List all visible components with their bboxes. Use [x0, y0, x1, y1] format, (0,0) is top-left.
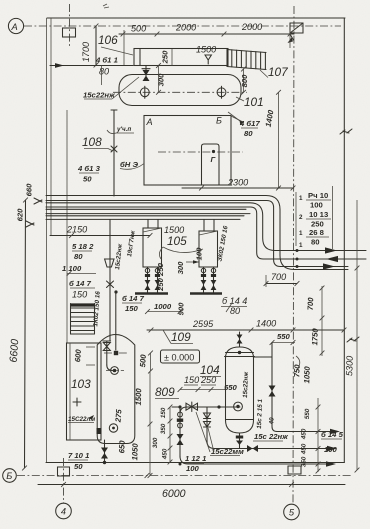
scan noise texture [0, 0, 1, 1]
platform 106 rectangle [134, 49, 228, 66]
pump2 suction stubs from band [203, 220, 205, 232]
dimension 2300 [182, 187, 293, 189]
tank inlet dot [114, 351, 118, 355]
svg-text:1: 1 [299, 230, 303, 237]
svg-text:275: 275 [113, 408, 123, 423]
svg-text:103: 103 [71, 377, 91, 391]
pipe 2b [46, 207, 366, 259]
tank top valve [106, 341, 108, 365]
dimension 800 vertical [243, 69, 245, 92]
pipe band: pipe 1a [46, 196, 348, 270]
twin valve on feed pipe [186, 403, 192, 410]
svg-text:у'ч.п: у'ч.п [116, 126, 131, 133]
svg-text:б 14 5: б 14 5 [321, 430, 344, 439]
svg-text:1 100: 1 100 [62, 264, 82, 273]
drop leg left x180 [179, 407, 181, 457]
svg-text:450: 450 [300, 443, 307, 455]
tank bottom valve [104, 440, 106, 462]
svg-text:4: 4 [61, 507, 66, 517]
svg-text:150: 150 [160, 407, 167, 418]
svg-text:2: 2 [299, 214, 303, 221]
svg-text:15с22нж: 15с22нж [242, 371, 250, 398]
wall top [47, 17, 345, 19]
svg-text:1000: 1000 [154, 302, 172, 311]
grid axis B line [17, 475, 352, 477]
svg-text:108: 108 [82, 135, 102, 149]
svg-text:1050: 1050 [130, 442, 140, 460]
svg-text:250: 250 [200, 375, 216, 385]
svg-text:2000: 2000 [241, 22, 262, 32]
elbow from x207 to mid pipe [207, 441, 246, 449]
svg-text:105: 105 [167, 234, 187, 248]
809 feed pipe horizontal [172, 407, 240, 414]
pipe 3a [46, 208, 246, 210]
leader from B corner up right [231, 116, 243, 122]
svg-text:2150: 2150 [66, 225, 87, 235]
svg-text:900: 900 [177, 302, 186, 316]
svg-text:100: 100 [310, 201, 323, 210]
vessel 101 [119, 75, 241, 106]
arrow right on exit 266 [323, 263, 335, 269]
svg-text:5: 5 [289, 508, 295, 518]
svg-text:1500: 1500 [196, 45, 216, 55]
svg-text:2595: 2595 [192, 319, 214, 329]
header under pump2 [190, 292, 222, 295]
room A-B rectangle [144, 116, 231, 186]
svg-text:100: 100 [186, 464, 200, 473]
svg-text:15с 2 15 1: 15с 2 15 1 [256, 398, 264, 428]
svg-text:150: 150 [184, 375, 199, 385]
vessel 104 [225, 332, 255, 433]
svg-text:106: 106 [98, 33, 118, 47]
svg-text:1: 1 [299, 195, 303, 202]
pump1 suction stubs from band [147, 220, 149, 229]
dimension 1700 vertical [95, 26, 97, 65]
break symbol right wall top [340, 129, 352, 134]
svg-text:300: 300 [152, 437, 159, 448]
extension line under 80 [101, 66, 103, 86]
svg-text:80: 80 [244, 129, 253, 138]
svg-text:50: 50 [83, 175, 92, 184]
pipe 1b [46, 201, 348, 267]
grid circle 5 [284, 504, 300, 520]
svg-text:1 12 1: 1 12 1 [185, 454, 206, 463]
svg-text:Б: Б [216, 116, 222, 126]
svg-text:15с22мм: 15с22мм [211, 447, 244, 456]
stray mark top [103, 4, 109, 8]
svg-text:250: 250 [161, 50, 170, 65]
right margin rot dims 550 450 450 350 [317, 398, 319, 472]
grid axis A line [24, 25, 341, 27]
grid axis 4 line top [69, 4, 71, 46]
vertical pipe x114 [113, 110, 115, 196]
svg-text:700: 700 [271, 272, 286, 282]
svg-text:26 8: 26 8 [309, 228, 325, 237]
svg-text:1750: 1750 [310, 327, 320, 345]
pump 1 (105) [143, 228, 162, 267]
svg-text:4 б1 3: 4 б1 3 [77, 164, 101, 173]
svg-text:б 14 4: б 14 4 [222, 296, 247, 306]
grid circle A [8, 18, 23, 33]
pipe 3b [46, 213, 250, 215]
tank bottom fitting [97, 428, 102, 434]
svg-text:1: 1 [299, 242, 303, 249]
funnel symbol [105, 259, 114, 267]
wall left outer [46, 18, 48, 463]
grid axis 4 line bottom [63, 458, 65, 503]
wall pilaster line right [332, 186, 334, 249]
pump2 suction riser [201, 267, 217, 293]
svg-text:660: 660 [25, 183, 34, 197]
closet G inside room [202, 144, 220, 185]
svg-text:107: 107 [268, 65, 288, 79]
svg-text:Б: Б [6, 471, 12, 481]
arrow right on exit 250 [325, 247, 337, 253]
svg-text:800: 800 [240, 74, 249, 88]
svg-text:150: 150 [72, 290, 87, 300]
svg-text:150: 150 [125, 304, 139, 313]
stray curl mark [296, 356, 300, 370]
break symbol right wall mid [347, 337, 359, 342]
svg-text:350: 350 [300, 456, 307, 467]
dimension 700 under bend [266, 283, 297, 285]
corner arrow at dim end [291, 35, 294, 40]
svg-text:101: 101 [244, 95, 264, 109]
svg-text:2000: 2000 [175, 23, 196, 33]
svg-text:550: 550 [277, 332, 291, 341]
left dimension line 6600 [25, 200, 26, 468]
pump 2 (105) [199, 231, 218, 267]
wall left inner [50, 18, 52, 235]
pipe 2a [46, 203, 366, 251]
valve on pipe to vessel 101 [145, 66, 147, 81]
svg-text:500: 500 [131, 24, 146, 34]
room centerline [158, 151, 243, 153]
svg-text:600: 600 [73, 348, 83, 362]
svg-text:A: A [146, 117, 153, 127]
wall right [343, 18, 345, 463]
second drop pipe to tank inlet [114, 290, 117, 293]
svg-text:2300: 2300 [227, 178, 248, 188]
column marker top-right [290, 23, 303, 33]
dimension 300 vertical [158, 66, 160, 93]
riser bottom pipe to right (y429) [277, 431, 338, 433]
x-valve [107, 281, 114, 288]
dimension 250 inside 106 [171, 49, 173, 66]
svg-text:80: 80 [74, 252, 83, 261]
svg-text:7 10 1: 7 10 1 [68, 451, 89, 460]
svg-text:809: 809 [155, 385, 175, 399]
grid axis 5 line [293, 6, 294, 503]
svg-text:80: 80 [230, 306, 240, 316]
manhole circle left [140, 88, 149, 97]
column marker bottom-right [288, 466, 301, 474]
dim line 2595 / 1400 [147, 329, 344, 331]
mid bottom pipe with valve to right [240, 448, 333, 450]
svg-text:500: 500 [138, 354, 148, 368]
svg-text:6600: 6600 [8, 339, 22, 363]
svg-text:5 18 2: 5 18 2 [72, 242, 94, 251]
svg-text:1500: 1500 [134, 387, 144, 405]
svg-text:109: 109 [171, 330, 191, 344]
top fitting [239, 332, 241, 347]
grid circle B [3, 469, 17, 483]
tank port circle upper [111, 367, 119, 375]
tank 102 vertical vessel [97, 335, 135, 444]
bottom dimension line 6000 [38, 484, 345, 486]
grid circle 4 [56, 503, 72, 519]
svg-text:10 13: 10 13 [309, 210, 328, 219]
arrow left on exit 259 [326, 256, 338, 262]
center port [234, 402, 243, 411]
svg-text:100: 100 [324, 445, 338, 454]
arrow right on bottom pipe [326, 461, 336, 467]
svg-text:80: 80 [99, 67, 109, 77]
svg-text:Г: Г [211, 155, 216, 164]
elbow to bottom line [180, 456, 332, 464]
svg-text:1400: 1400 [256, 319, 276, 329]
svg-text:A: A [11, 22, 18, 32]
svg-text:4 б1 1: 4 б1 1 [95, 56, 118, 65]
elevation box +-0.000 [161, 350, 200, 363]
svg-text:80: 80 [311, 238, 320, 247]
svg-text:1050: 1050 [302, 365, 312, 383]
svg-text:1700: 1700 [81, 42, 91, 62]
svg-text:300: 300 [157, 73, 166, 87]
vessel top to riser connection [254, 356, 273, 358]
svg-text:б 14 7: б 14 7 [122, 294, 145, 303]
svg-text:350: 350 [160, 423, 167, 434]
svg-text:б 14 7: б 14 7 [69, 279, 92, 288]
svg-text:5300: 5300 [344, 356, 355, 377]
vessel bottom drop [239, 433, 241, 449]
svg-text:4 б17: 4 б17 [239, 119, 260, 128]
svg-text:550: 550 [224, 383, 238, 392]
svg-text:Pч 10: Pч 10 [308, 191, 328, 200]
extension line to 500 tick [123, 30, 125, 66]
pipe 3c [46, 215, 244, 217]
pipe 3d [46, 218, 240, 220]
vertical pipe to tank (1K02) [109, 220, 111, 342]
manhole circle right [217, 88, 226, 97]
svg-text:50: 50 [74, 462, 83, 471]
svg-text:15с22нж: 15с22нж [83, 91, 115, 100]
drop leg x207 check valves [206, 407, 208, 442]
junction dots on risers [296, 249, 299, 252]
column marker bottom-left [58, 467, 70, 476]
stairs 107 [227, 50, 266, 70]
svg-text:100: 100 [195, 247, 204, 261]
top dimension line 500/2000/2000 [119, 33, 294, 35]
flow arrow line into building [50, 65, 133, 67]
vessel 101 centerline [113, 91, 247, 93]
dimension 1400 rot top right [278, 92, 280, 188]
svg-text:± 0.000: ± 0.000 [164, 353, 194, 363]
svg-text:650: 650 [117, 440, 126, 454]
pump1 suction riser [145, 267, 161, 293]
svg-text:450: 450 [300, 428, 307, 440]
pipe spec table right [296, 191, 331, 249]
header under pump1 [135, 292, 168, 295]
svg-text:700: 700 [306, 297, 315, 311]
tank port circle lower [109, 424, 117, 432]
svg-text:40: 40 [268, 417, 275, 426]
svg-text:550: 550 [304, 408, 311, 419]
svg-text:620: 620 [16, 208, 25, 222]
room 103 [67, 343, 102, 440]
svg-text:750: 750 [292, 364, 301, 378]
column marker top-left [63, 28, 76, 37]
grid axis 4 faint solid line [66, 110, 68, 343]
wall bottom [46, 462, 344, 464]
svg-text:15с 22нж: 15с 22нж [254, 432, 288, 441]
riser right of vessel [271, 343, 273, 427]
svg-text:6000: 6000 [162, 488, 186, 500]
stairs left (ladder) [71, 304, 95, 335]
dim 2150 [50, 235, 150, 237]
svg-text:300: 300 [176, 261, 185, 275]
